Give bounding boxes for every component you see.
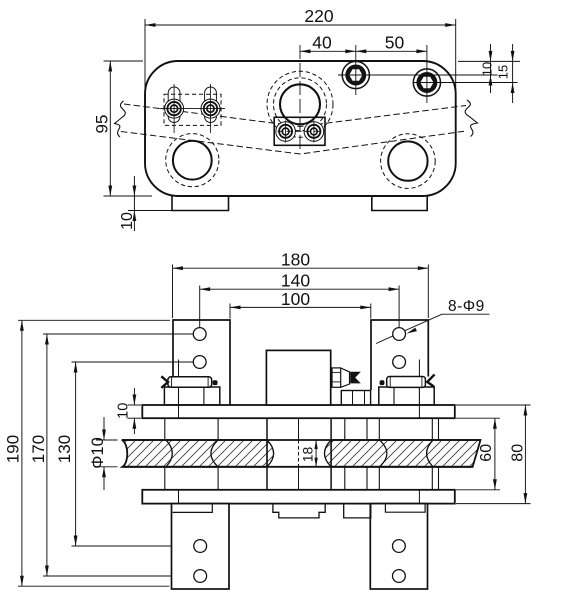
front view: right adjuster bolt centerline upper [418,360,420,377]
front view: bottom guide plate [142,490,455,504]
svg-text:18: 18 [299,447,315,463]
front view: chain bar bottom edge [123,466,473,468]
top view: left slot hole 2 [205,87,217,123]
top view: left mounting tab [172,196,229,211]
top view: clamp bolts horizontal centerline [278,130,323,132]
front view: left nut end line 2 [207,377,209,386]
top view: right dims extension plate top [458,60,520,62]
svg-text:50: 50 [385,33,405,53]
top view: lower-right roller circle [388,141,427,180]
front view: chain link plate line d [366,418,368,440]
top view: socket head bolt A outer [342,61,369,88]
top view: left bolt 1 head ring [167,102,180,115]
front view: dim 180 extension right [427,265,429,319]
top view: dimension 10 tab height [133,176,135,231]
front view: right nut end line 2 [421,377,423,387]
front view: dim 10 plate extensions [128,404,142,406]
front view: roller boundary arc 4 [427,440,433,467]
top view: dim 95 extension top [104,60,144,62]
svg-text:8-Φ9: 8-Φ9 [448,298,485,315]
front view: center pin hidden line lower [298,467,300,490]
front view: dimension 180 [173,267,429,269]
top view: socket head bolt B hex socket [419,76,435,90]
front view: tensioner base inner line 1 [352,391,354,405]
top view: socket head bolt A hex socket [348,68,364,82]
front view: right bearing block inner line 2 [418,387,420,405]
top view: left bolt 2 vertical centerline [210,84,212,133]
svg-text:15: 15 [496,65,511,79]
front view: right bracket hole 1 [393,328,406,341]
front view: right foot hole 1 [393,540,406,553]
front view: roller boundary arc 1 [166,440,172,467]
front view: right bracket hole 2 [393,356,406,369]
top view: socket head bolt A inner [347,66,365,84]
top view: clamp bolt left centerline tick [285,121,287,143]
front view: left foot hole 2 [194,570,207,583]
front view: roller boundary arc 2 [211,440,218,467]
front view: left nut end line 1 [171,377,173,386]
svg-text:95: 95 [93,115,112,134]
front view: tensioner screw end symbol [350,372,361,384]
top view: lower-left roller dashed circle [166,134,219,187]
front view: right clamp angle symbol [427,374,434,386]
svg-text:180: 180 [281,250,310,270]
front view: dimension 170 [46,334,48,576]
front view: right nut retaining dot [380,380,385,385]
top view: left bolt 2 head ring [204,102,217,115]
top view: left break squiggle [115,101,126,137]
top view: center clamp rectangle [274,117,325,145]
front view: center pin hidden line upper [298,418,300,440]
front view: central gearbox block [266,350,330,405]
front view: tensioner plate stack [332,368,341,387]
top view: left bolt 2 bore [207,105,214,112]
top view: socket bolt B centerline [426,45,428,103]
top view: center bore circle [280,84,320,124]
front view: dim 140 extension right [398,286,400,335]
top view: socket head bolt B inner [418,73,436,91]
top view: left bolt 1 bore [171,105,178,112]
front view: left bearing block [164,387,219,405]
front view: leader shoulder for 8-phi9 [442,313,490,315]
svg-text:80: 80 [510,444,527,462]
front view: dim 100 extension left [229,304,231,319]
front view: tensioner cone outline [341,368,350,387]
top view: dim 10 extension [128,210,173,212]
front view: dim 130 extensions [72,361,201,363]
front view: roller end cap left of center [267,440,274,467]
front view: right lower boss [344,504,371,518]
front view: dimension 190 [21,320,23,586]
front view: dim 100 extension right [370,304,372,319]
top view: dimension 220 [145,24,456,26]
top view: dashed clamp outline around left bolts [164,94,221,125]
front view: right bearing block [379,387,434,405]
front view: right foot hole 2 [393,570,406,583]
front view: chain link plate line a [164,418,166,440]
svg-text:220: 220 [304,6,333,26]
top view: dimension 10 right [490,44,492,93]
front view: left foot plate [172,504,230,589]
front view: left adjuster bolt through top plate [178,405,180,418]
svg-text:170: 170 [29,435,48,463]
top view: dimension 40 [300,50,356,52]
svg-text:10: 10 [119,212,136,230]
front view: left bracket hole 2 [193,356,206,369]
front view: dimension 60 [494,418,496,490]
top view: dimension 15 right [512,44,514,103]
front view: right bracket upper plate [371,320,428,390]
svg-text:10: 10 [480,62,495,76]
top view: clamp bolt left washer [276,122,296,142]
top view: base plate rounded outline [145,61,456,196]
front view: chain link plate line e [378,418,380,440]
top view: chain path dashed line upper [124,104,466,127]
top view: left bolts horizontal centerline [160,108,226,110]
front view: left bearing block inner line 2 [203,387,205,405]
front view: central link white panel [267,418,331,490]
front view: dimension 18 [315,440,317,467]
top view: right mounting tab [372,196,427,211]
front view: tensioner base inner line 2 [364,391,366,405]
front view: chain link plate line b [217,418,219,440]
top view: dim 95 extension bottom [104,195,153,197]
top view: dimension 50 [356,50,427,52]
top view: clamp bolt right centerline tick [313,121,315,143]
front view: left nut retaining dot [213,380,218,385]
top view: right break squiggle [465,100,477,137]
front view: central link left edge [266,418,268,490]
front view: chain bar hatched section [122,440,481,467]
front view: left foot shim line [173,504,213,513]
svg-text:100: 100 [281,289,310,309]
front view: dimension 100 [230,306,371,308]
front view: chain link plate line f [431,418,433,440]
front view: dim 80 extensions [456,404,531,406]
front view: right foot shim line [385,504,425,513]
front view: roller boundary arc 3 [380,440,387,467]
front view: dimension phi10 [103,417,105,440]
svg-text:Φ10: Φ10 [89,437,107,469]
front view: dim 140 extension left [199,286,201,335]
top view: center boss dashed circle inner [274,78,327,131]
top view: dimension 95 [109,61,111,196]
front view: left adjuster bolt centerline upper [178,360,180,378]
front view: dim 180 extension left [172,265,174,319]
front view: left adjuster nut [168,377,212,387]
top view: left bolt 2 washer [201,99,220,118]
front view: chain link plate line c [344,418,346,440]
svg-text:190: 190 [4,435,23,463]
top view: clamp bolt left bore [282,128,289,135]
front view: roller end cap right of center [325,440,332,467]
top view: socket head bolt B outer [413,69,440,96]
front view: left clamp arrow symbol [161,376,168,388]
svg-text:10: 10 [116,403,132,419]
top view: socket bolt A horizontal line [338,74,498,76]
top view: clamp bolt right washer [304,122,324,142]
front view: dim 170 extensions [43,333,201,335]
front view: center lower boss [273,504,325,518]
front view: right nut end line 1 [389,377,391,387]
top view: lower-left roller circle [173,141,212,180]
front view: left bracket hole 1 [193,328,206,341]
top view: lower-right roller dashed circle [381,134,436,189]
front view: right adjuster nut [387,377,426,388]
svg-text:40: 40 [312,33,332,53]
top view: left slot hole 1 [168,87,180,123]
front view: left foot hole 1 [194,540,207,553]
top view: chain path dashed line lower [121,131,466,154]
front view: right foot plate [370,504,427,589]
front view: dim 190 extensions [18,319,170,321]
front view: chain link plate line g [438,418,440,440]
front view: right bearing block inner line 1 [393,387,395,405]
front view: left adjuster bolt through bottom plate [178,490,180,504]
front view: central link right edge [330,418,332,490]
top view: socket bolt B horizontal line [414,82,518,84]
front view: chain bar top edge [122,439,481,441]
front view: left bracket upper plate [173,320,230,405]
top view: dim 220 extension lines [144,19,146,123]
front view: right adjuster bolt through bottom plate [418,490,420,504]
front view: dim phi10 extensions [96,439,118,441]
top view: socket bolt A centerline [355,45,357,95]
front view: dimension 10 plate [133,388,135,405]
svg-text:60: 60 [478,444,495,462]
front view: right adjuster bolt through top plate [418,405,420,418]
front view: dim 60 extensions [456,417,500,419]
svg-text:140: 140 [281,271,310,291]
front view: leader line for 8-phi9 [376,314,442,343]
top view: left bolt 1 washer [165,99,184,118]
top view: center boss dashed circle outer [267,71,333,137]
front view: top guide plate [142,405,455,418]
front view: dimension 80 [524,405,526,504]
top view: clamp bolt left head ring [279,125,292,138]
top view: clamp bolt right bore [311,128,318,135]
top view: center vertical centerline [299,45,301,153]
front view: tensioner base block [341,391,370,405]
front view: dimension 130 [75,362,77,546]
top view: left bolt 1 vertical centerline [173,84,175,133]
front view: dimension 140 [200,288,399,290]
svg-text:130: 130 [55,435,74,463]
front view: center pin hidden line dashed [298,440,300,467]
front view: left bearing block inner line 1 [178,387,180,405]
top view: clamp bolt right head ring [307,125,320,138]
